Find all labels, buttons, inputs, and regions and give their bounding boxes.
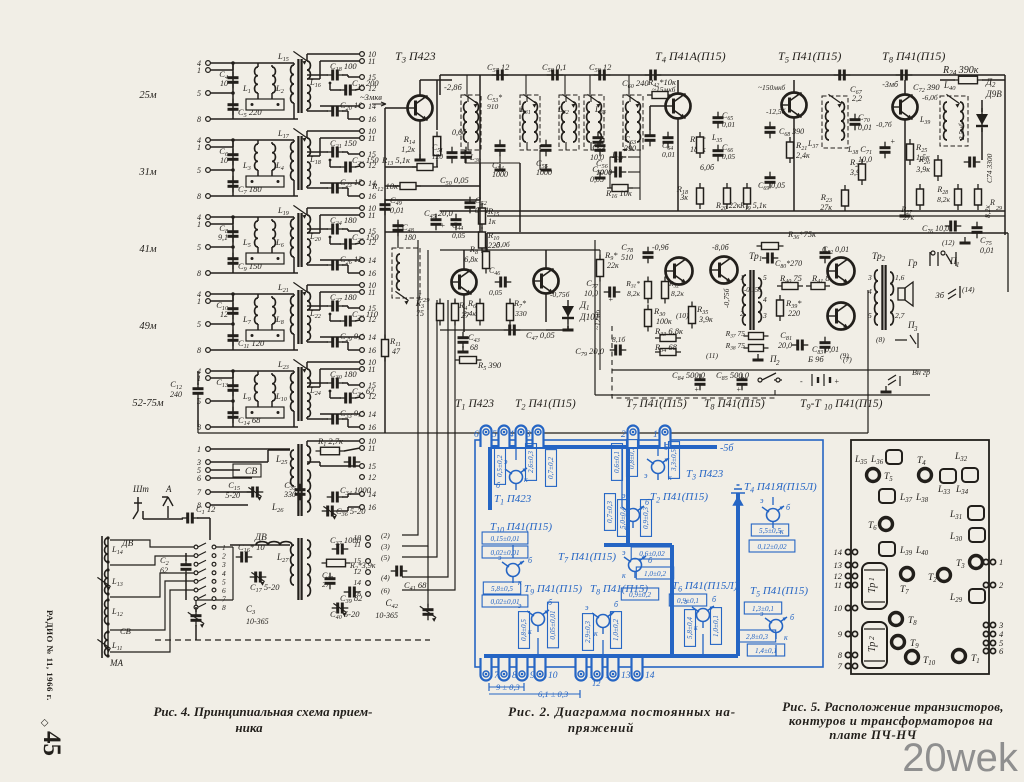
- wire: [293, 294, 295, 296]
- wire: [210, 377, 233, 379]
- board pin 11: [845, 582, 857, 587]
- board coil L31: [968, 506, 984, 520]
- wire: [466, 75, 468, 95]
- transformer winding upper L20: [307, 215, 310, 233]
- capacitor C8: [228, 226, 239, 243]
- capacitor C46 0,05: [495, 277, 512, 288]
- wire: [210, 323, 233, 325]
- wire: [306, 54, 308, 61]
- svg-text:4: 4: [763, 295, 767, 304]
- wire: [307, 309, 320, 311]
- voltage box 0,7±0,3: [605, 494, 616, 531]
- board pin 6: [983, 648, 995, 653]
- resistor R20 22к: [724, 183, 731, 209]
- blue transistor T8: [592, 612, 614, 634]
- svg-text:РАДИО № 11, 1966 г.: РАДИО № 11, 1966 г.: [45, 610, 55, 701]
- svg-text:(12): (12): [942, 238, 955, 247]
- coil L27: [256, 542, 292, 545]
- wire: [210, 272, 298, 274]
- svg-text:5,5±0,5: 5,5±0,5: [759, 527, 781, 535]
- board coil L33: [940, 469, 956, 483]
- blue transistor T3: [647, 458, 669, 480]
- capacitor C28: [340, 316, 357, 327]
- resistor R10 220: [479, 227, 486, 253]
- capacitor C49 0,01: [380, 199, 391, 216]
- svg-text:контуров и трансформаторов на: контуров и трансформаторов на: [789, 714, 993, 728]
- blue pin 9: [517, 658, 536, 681]
- svg-text:2: 2: [776, 359, 780, 367]
- wire: [197, 398, 199, 427]
- wire: [677, 150, 679, 211]
- svg-text:8: 8: [197, 192, 201, 201]
- coil L14: [105, 538, 108, 562]
- svg-text:Б 9б: Б 9б: [807, 354, 824, 364]
- core: [298, 444, 301, 516]
- capacitor C51 120: [447, 147, 458, 164]
- svg-text:+: +: [608, 295, 613, 304]
- terminal 14: [360, 412, 365, 417]
- trimmer arrow: [395, 291, 408, 304]
- trimmer arrow: [464, 94, 477, 107]
- svg-text:3: 3: [867, 273, 872, 282]
- resistor R42 10к: [647, 92, 673, 99]
- wire: [342, 418, 348, 420]
- junction: [329, 390, 332, 393]
- wire: [385, 166, 417, 168]
- svg-text:(5): (5): [381, 553, 390, 562]
- variable capacitor C42 10-365: [423, 604, 434, 621]
- transformer winding lower L24: [307, 393, 310, 417]
- wire: [329, 160, 331, 167]
- board transistor T7: [901, 568, 914, 581]
- trunk wire 4: [402, 300, 448, 577]
- coil L40: [960, 102, 963, 140]
- svg-text:1: 1: [999, 557, 1003, 567]
- svg-text:(3): (3): [381, 542, 390, 551]
- trimmer arrow: [251, 572, 264, 585]
- wire: [342, 341, 348, 343]
- blue pin 10: [535, 658, 558, 681]
- wire: [319, 61, 321, 79]
- wire: [467, 142, 469, 150]
- voltage box 0,8±0,1: [627, 440, 638, 477]
- svg-text:1,0±0,1: 1,0±0,1: [712, 615, 720, 637]
- terminal 12: [360, 475, 365, 480]
- wire: [609, 157, 611, 188]
- coil shield box: [246, 407, 284, 418]
- IF shield box L31: [520, 95, 540, 150]
- svg-text:-0,15б: -0,15б: [744, 287, 762, 294]
- svg-text:8,2к: 8,2к: [627, 289, 640, 298]
- svg-text:180: 180: [404, 233, 416, 242]
- svg-text:к: к: [668, 473, 672, 482]
- switch contact row 3b: [212, 562, 216, 566]
- wire: [348, 153, 360, 155]
- svg-text:510: 510: [621, 253, 633, 262]
- svg-text:330: 330: [514, 309, 527, 318]
- junction: [277, 334, 280, 337]
- coil L30b: [475, 102, 478, 142]
- blue pin 2: [621, 426, 639, 447]
- wire: [307, 382, 328, 384]
- wire: [904, 120, 906, 151]
- voltage box 2,8±0,3: [738, 630, 775, 642]
- terminal 5: [206, 468, 211, 473]
- wire: [210, 370, 258, 372]
- wire: [1007, 233, 1009, 292]
- terminal 15: [360, 306, 365, 311]
- board transistor T6: [880, 518, 893, 531]
- svg-text:Шт: Шт: [132, 484, 149, 494]
- wire: [197, 517, 210, 519]
- wire: [489, 686, 524, 688]
- wire: [110, 573, 194, 597]
- wire: [293, 63, 295, 65]
- transformer winding lower L20: [307, 239, 310, 263]
- board transistor T1: [953, 650, 966, 663]
- rod antenna symbol: [133, 497, 142, 519]
- capacitor C18: [327, 70, 344, 81]
- svg-text:СВ: СВ: [120, 626, 131, 636]
- board coil L39: [879, 542, 895, 556]
- wire: [526, 95, 528, 102]
- junction: [251, 103, 254, 106]
- capacitor C31: [340, 393, 357, 404]
- wire: [319, 462, 321, 466]
- voltage box 1,3±0,1: [744, 602, 781, 614]
- wire: [210, 246, 233, 248]
- wire: [1004, 75, 1006, 235]
- terminal 16: [360, 194, 365, 199]
- coil L12: [105, 600, 108, 624]
- wire: [307, 187, 328, 189]
- svg-text:-5б: -5б: [720, 443, 734, 454]
- svg-text:Рис. 2. Диаграмма постоянных н: Рис. 2. Диаграмма постоянных на-: [508, 704, 736, 719]
- switch contact row 8: [194, 605, 198, 609]
- wire: [210, 118, 298, 120]
- voltage box 5,8±0,5: [483, 582, 520, 594]
- terminal 16: [360, 425, 365, 430]
- wire: [198, 543, 206, 547]
- wire: [307, 284, 360, 286]
- svg-text:5,8±0,5: 5,8±0,5: [491, 585, 513, 593]
- board coil L32sq: [962, 468, 978, 482]
- wire: [110, 556, 194, 565]
- wire: [355, 89, 360, 90]
- wire: [342, 264, 348, 266]
- wire: [342, 228, 348, 230]
- capacitor C2 62: [181, 559, 192, 576]
- svg-text:-5,0б: -5,0б: [494, 240, 510, 249]
- wire: [198, 586, 206, 590]
- capacitor ?: [593, 132, 604, 149]
- wire: [210, 504, 248, 506]
- capacitor C23: [327, 183, 344, 194]
- terminal 14: [360, 492, 365, 497]
- wire: [664, 442, 666, 447]
- resistor R2 3,9к: [322, 559, 351, 567]
- IF shield box L33: [584, 95, 604, 150]
- wire: [479, 75, 481, 232]
- wire: [463, 250, 465, 270]
- trimmer capacitor C15: [247, 487, 264, 498]
- wire: [306, 263, 308, 265]
- wire: [347, 383, 349, 385]
- svg-text:11: 11: [834, 580, 842, 590]
- voltage box 1,0±0,2: [611, 612, 622, 649]
- switch contact row 3: [194, 562, 198, 566]
- svg-text:14: 14: [834, 547, 843, 557]
- svg-text:э: э: [498, 553, 502, 562]
- board coil L36: [886, 450, 902, 464]
- resistor R11 47: [382, 335, 389, 362]
- transistor T2: [533, 269, 559, 294]
- wire: [307, 207, 360, 209]
- board outline: [851, 440, 989, 674]
- wire: [385, 107, 407, 109]
- junction: [251, 334, 254, 337]
- svg-text:6,0б: 6,0б: [700, 163, 715, 172]
- wire: [384, 357, 386, 433]
- wire: [384, 200, 386, 232]
- trimmer arrow: [97, 577, 110, 590]
- svg-text:1,6: 1,6: [895, 273, 905, 282]
- svg-text:20wek: 20wek: [902, 736, 1019, 780]
- svg-text:Рис. 5. Расположение транзисто: Рис. 5. Расположение транзисторов,: [782, 700, 1004, 714]
- wire: [348, 118, 360, 120]
- svg-text:330: 330: [283, 490, 296, 499]
- svg-text:10,0: 10,0: [858, 155, 872, 164]
- capacitor C47 0,05: [504, 325, 521, 336]
- diode D2 D9B: [976, 108, 988, 132]
- wire: [330, 397, 341, 399]
- voltage box 0,6±0,02: [631, 547, 673, 559]
- svg-text:(14): (14): [962, 285, 975, 294]
- wire: [210, 400, 233, 402]
- jack 14 symbol: [948, 286, 960, 299]
- terminal 8: [206, 425, 211, 430]
- svg-text:1к: 1к: [488, 217, 496, 226]
- svg-text:15: 15: [368, 227, 376, 236]
- board pin 12: [845, 573, 857, 578]
- bus y433: [198, 432, 868, 434]
- wire: [271, 142, 273, 144]
- voltage box 1,4±0,1: [747, 644, 784, 656]
- wire: [293, 371, 295, 373]
- wire: [523, 683, 525, 691]
- svg-text:Вн гр: Вн гр: [912, 368, 930, 377]
- band filter section 41м: [139, 204, 379, 278]
- winding2: [307, 540, 310, 558]
- wire: [440, 329, 546, 331]
- wire: [307, 74, 328, 76]
- svg-text:-2,8б: -2,8б: [444, 82, 462, 92]
- coil L5: [255, 221, 258, 247]
- svg-text:1,2к: 1,2к: [401, 145, 415, 154]
- wire: [546, 329, 568, 331]
- wire: [210, 62, 258, 64]
- svg-text:12: 12: [592, 678, 601, 688]
- wire: [355, 320, 360, 321]
- svg-text:15: 15: [368, 73, 376, 82]
- wire: [330, 166, 341, 168]
- coil tap dot: [106, 560, 109, 563]
- wire: [197, 371, 199, 385]
- svg-text:12: 12: [368, 315, 376, 324]
- wire: [198, 569, 206, 573]
- blue pin 3: [525, 426, 544, 447]
- wire: [271, 401, 273, 407]
- wire: [397, 222, 399, 248]
- trunk wire 1: [402, 300, 418, 535]
- chassis ground: [495, 164, 506, 170]
- capacitor C6: [228, 149, 239, 166]
- terminal 15: [360, 152, 365, 157]
- resistor R37 75: [744, 333, 769, 340]
- resistor R17 180к: [697, 132, 704, 158]
- svg-text:10: 10: [220, 79, 228, 88]
- svg-text:~3мкв: ~3мкв: [360, 92, 382, 102]
- chassis ground: [563, 324, 574, 330]
- board coil L30: [969, 528, 985, 542]
- wire: [210, 448, 290, 450]
- svg-text:-8,0б: -8,0б: [712, 243, 730, 252]
- input arrow: [372, 102, 386, 106]
- svg-text:11: 11: [368, 134, 375, 143]
- svg-text:0,01: 0,01: [980, 246, 994, 255]
- svg-text:12: 12: [368, 392, 376, 401]
- capacitor C67 2,2: [834, 70, 851, 81]
- terminal 16: [360, 505, 365, 510]
- terminal 11: [360, 290, 365, 295]
- svg-text:10 П41(П15): 10 П41(П15): [824, 398, 883, 412]
- blue pin 12: [592, 658, 615, 681]
- voltage box 0,9±0,2: [621, 588, 658, 600]
- junction: [231, 399, 235, 403]
- wire: [427, 250, 429, 310]
- coil core line: [101, 536, 103, 658]
- wire: [355, 243, 360, 244]
- terminal 12: [360, 394, 365, 399]
- wire: [342, 496, 348, 498]
- wire: [385, 199, 440, 201]
- wire: [307, 232, 320, 234]
- wire: [307, 53, 360, 55]
- wire: [210, 300, 233, 302]
- svg-text:+: +: [694, 385, 699, 394]
- terminal 15: [360, 75, 365, 80]
- core: [298, 59, 301, 113]
- wire: [342, 110, 348, 112]
- resistor R15 1к: [479, 203, 486, 229]
- terminal 7: [206, 490, 211, 495]
- trimmer arrow: [562, 94, 575, 107]
- trunk wire 3: [402, 300, 437, 557]
- svg-text:14: 14: [645, 671, 655, 681]
- transistor T8: [892, 95, 918, 120]
- coil L33: [587, 102, 590, 142]
- resistor R13 5,1к: [412, 164, 438, 171]
- wire: [621, 447, 623, 507]
- wire: [232, 140, 234, 196]
- coil L8: [272, 298, 275, 324]
- wire: [232, 217, 234, 224]
- wire: [293, 334, 295, 350]
- bus line y211: [440, 210, 1005, 212]
- wire: [702, 634, 704, 656]
- junction: [277, 411, 280, 414]
- svg-text:Рис. 4. Принципиальная схема п: Рис. 4. Принципиальная схема прием-: [153, 704, 372, 719]
- wire: [230, 544, 290, 546]
- svg-text:Т4 П41Я(П15Л): Т4 П41Я(П15Л): [744, 481, 817, 494]
- wire: [612, 369, 930, 371]
- wire: [629, 142, 631, 150]
- blue pin 11: [576, 658, 598, 681]
- svg-text:27: 27: [322, 580, 330, 589]
- svg-text:16: 16: [368, 503, 376, 512]
- resistor R12 10к: [395, 183, 421, 190]
- wire: [293, 217, 295, 219]
- wire: [348, 307, 360, 309]
- wire: [216, 546, 233, 548]
- tuning arrow: [293, 205, 306, 218]
- wire: [210, 195, 298, 197]
- coil L39: [944, 102, 947, 140]
- wire: [185, 574, 187, 600]
- terminal 15: [360, 383, 365, 388]
- electrolytic C84 500,0: [695, 374, 706, 391]
- svg-text:Тр: Тр: [867, 642, 878, 652]
- wire: [537, 638, 539, 656]
- svg-text:(6): (6): [381, 586, 390, 595]
- terminal 12: [366, 570, 371, 575]
- svg-text:к: к: [625, 523, 629, 532]
- coil L1: [255, 67, 258, 93]
- wire: [293, 411, 295, 427]
- wire: [427, 600, 429, 607]
- Tr2 sec lower: [890, 300, 893, 325]
- board transistor T10: [906, 651, 919, 664]
- capacitor C27: [327, 301, 344, 312]
- wire: [342, 187, 348, 189]
- svg-text:49м: 49м: [139, 321, 157, 332]
- svg-text:э: э: [518, 601, 522, 610]
- svg-text:пряжений: пряжений: [568, 720, 634, 735]
- wire: [628, 75, 630, 95]
- svg-text:240: 240: [170, 390, 182, 399]
- wire: [197, 420, 199, 433]
- board transformer Tr1: [862, 563, 887, 609]
- svg-text:-0,7б: -0,7б: [876, 120, 892, 129]
- terminal 10: [360, 439, 365, 444]
- resistor R28 8,2к: [955, 184, 962, 210]
- svg-text:Д9В: Д9В: [985, 89, 1002, 99]
- resistor R22 3,9к: [859, 159, 866, 185]
- wire: [307, 440, 360, 442]
- resistor R29 8,2к: [975, 184, 982, 210]
- chassis ground: [541, 164, 552, 170]
- electrolytic C61 10,0: [610, 152, 627, 163]
- wire: [649, 106, 651, 130]
- board transistor T3: [970, 556, 983, 569]
- capacitor C68 390: [765, 122, 776, 139]
- wire: [348, 272, 360, 274]
- wire: [258, 62, 294, 64]
- wire: [419, 121, 421, 161]
- svg-text:10-365: 10-365: [375, 611, 398, 620]
- blue ground arrow T4: [731, 485, 745, 505]
- svg-text:0,6±0,1: 0,6±0,1: [613, 451, 621, 473]
